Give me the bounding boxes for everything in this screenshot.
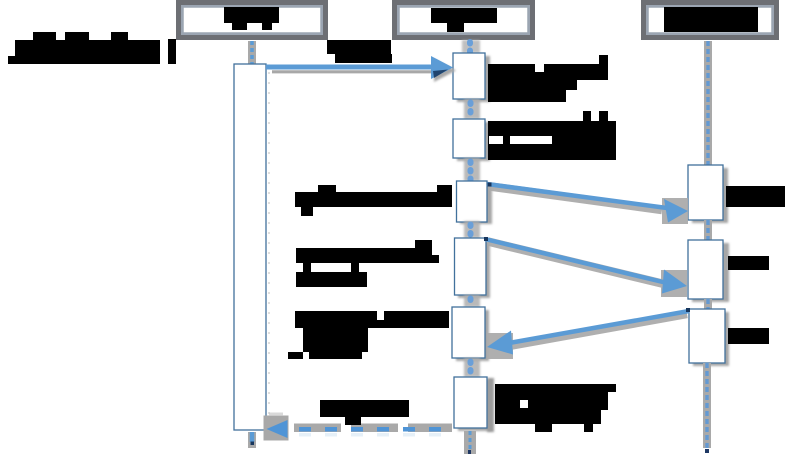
left activation bar (tall) [234, 64, 269, 430]
dashed return message: M6 -> left bar [264, 413, 453, 441]
label right of M2 (two lines) [488, 111, 616, 160]
middle segment M1-M2 [464, 99, 480, 119]
label right of M1 (two lines) [488, 55, 608, 102]
right activation box RC [689, 309, 729, 366]
middle activation box M6 [454, 377, 494, 432]
arrow message2: M3 -> RA (solid, diagonal down-right) [487, 183, 688, 225]
right activation box RB [688, 240, 729, 302]
lifeline head User (left) [179, 3, 326, 38]
middle activation box M3 [457, 181, 493, 224]
label left of M5 (three lines) [288, 311, 449, 359]
middle lifeline stub below M6 [464, 431, 476, 454]
label "message" above arrow1 [327, 40, 392, 63]
title "sd ..." redacted text block [8, 32, 176, 64]
middle segment M4-M5 [464, 295, 480, 307]
label above dashed return [320, 400, 409, 425]
label left of M4 (two lines) [296, 240, 439, 287]
lifeline head Database (right) [644, 3, 777, 38]
middle segment M3-M4 [464, 221, 480, 238]
arrow message4: RC -> M5 (solid, diagonal down-left) [487, 308, 690, 359]
arrow message3: M4 -> RB (solid, diagonal down-right) [484, 237, 687, 297]
right segment RA-RB [704, 220, 712, 240]
middle lifeline top segment [462, 40, 480, 53]
label left of M3 [295, 185, 452, 216]
right activation box RA [688, 165, 728, 223]
left lifeline stub below head [248, 41, 256, 64]
right lifeline top segment [704, 41, 712, 165]
label right of RA [726, 186, 785, 207]
middle segment M5-M6 [464, 358, 480, 377]
middle activation box M4 [455, 238, 491, 298]
label right of M6 [495, 384, 616, 432]
middle segment M2-M3 [464, 158, 480, 181]
label right of RC [728, 328, 769, 344]
middle activation box M2 [453, 119, 490, 161]
right lifeline bottom segment [703, 363, 711, 453]
arrow message1: left bar -> M1 (solid, right) [266, 56, 456, 82]
left lifeline stub below bar [248, 432, 256, 448]
right segment RB-RC [704, 299, 712, 309]
lifeline head System (middle) [395, 3, 533, 38]
middle activation box M5 [452, 307, 489, 361]
label right of RB [728, 256, 769, 270]
middle activation box M1 [453, 53, 490, 102]
